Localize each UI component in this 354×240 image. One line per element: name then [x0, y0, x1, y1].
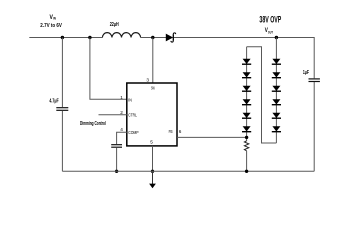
wire: CTRL pin [99, 114, 127, 116]
node: SW junction [151, 36, 154, 39]
svg-text:SW: SW [151, 86, 155, 91]
wire: right LED string line [275, 38, 277, 144]
svg-text:OUT: OUT [268, 30, 274, 34]
svg-text:1µF: 1µF [303, 70, 309, 76]
label VIN [50, 14, 57, 21]
node: IN feed junction [88, 36, 91, 39]
wire: SW pin [152, 38, 154, 84]
node: COMP cap ground junction [115, 170, 118, 173]
LED D10 [272, 86, 281, 92]
svg-text:22µH: 22µH [110, 22, 119, 28]
wire: output cap top lead [313, 37, 315, 78]
wire: GND pin [152, 146, 154, 171]
node: VOUT junction [275, 36, 278, 39]
LED D8 [272, 59, 281, 64]
svg-text:4.7µF: 4.7µF [49, 99, 58, 105]
LED D4 [242, 86, 251, 92]
svg-text:CTRL: CTRL [128, 112, 137, 117]
node: resistor ground junction [245, 170, 248, 173]
wire: ground rail [62, 170, 314, 172]
wire: VIN input rail segment [29, 37, 102, 39]
capacitor C2 (COMP) [111, 145, 122, 148]
inductor L1 22uH [102, 33, 140, 38]
svg-text:IN: IN [128, 98, 132, 103]
svg-text:IN: IN [53, 17, 56, 21]
svg-text:4: 4 [120, 127, 123, 132]
svg-text:5: 5 [150, 140, 153, 145]
svg-text:Dimming Control: Dimming Control [80, 121, 106, 127]
node: FB junction [245, 136, 248, 139]
LED D3 [242, 72, 251, 78]
wire: output rail segment [174, 37, 314, 39]
wire: VIN to IN pin [90, 38, 127, 100]
wire: input cap bottom lead [61, 111, 63, 172]
LED D11 [272, 99, 281, 105]
svg-text:6: 6 [179, 129, 182, 134]
LED D13 [272, 126, 281, 132]
node: GND junction [151, 170, 154, 173]
wire: COMP pin to cap [117, 132, 127, 144]
ground [149, 171, 156, 188]
wire: FB pin to LED string [177, 136, 247, 138]
wire: left LED string line [246, 47, 248, 141]
LED D12 [272, 113, 281, 119]
wire: COMP cap to ground rail [116, 148, 118, 172]
wire: inductor to diode segment [141, 37, 166, 39]
capacitor C3 1uF [309, 79, 320, 82]
wire: output cap bottom lead [313, 82, 315, 171]
svg-text:1: 1 [120, 95, 123, 100]
svg-text:FB: FB [169, 129, 173, 134]
svg-text:3: 3 [146, 77, 149, 82]
label VOUT [265, 27, 274, 35]
svg-text:38V OVP: 38V OVP [259, 15, 281, 25]
LED D9 [272, 72, 281, 78]
svg-text:COMP: COMP [128, 130, 138, 135]
LED D7 [242, 126, 251, 132]
svg-text:2.7V to 6V: 2.7V to 6V [40, 23, 62, 29]
capacitor C1 4.7uF [56, 108, 68, 111]
LED D2 [242, 59, 251, 64]
LED D6 [242, 113, 251, 119]
LED D5 [242, 99, 251, 105]
wire: resistor to ground rail [246, 151, 248, 172]
diode D1 schottky [166, 33, 176, 42]
svg-text:2: 2 [120, 110, 123, 115]
op-amp U1 (IC box) [127, 83, 177, 146]
resistor R1 (LED current sense) [244, 141, 248, 151]
node: VIN cap junction [61, 36, 64, 39]
wire: series return (top jog, middle vertical, bottom U) [247, 47, 277, 143]
wire: input cap top lead [61, 38, 63, 108]
